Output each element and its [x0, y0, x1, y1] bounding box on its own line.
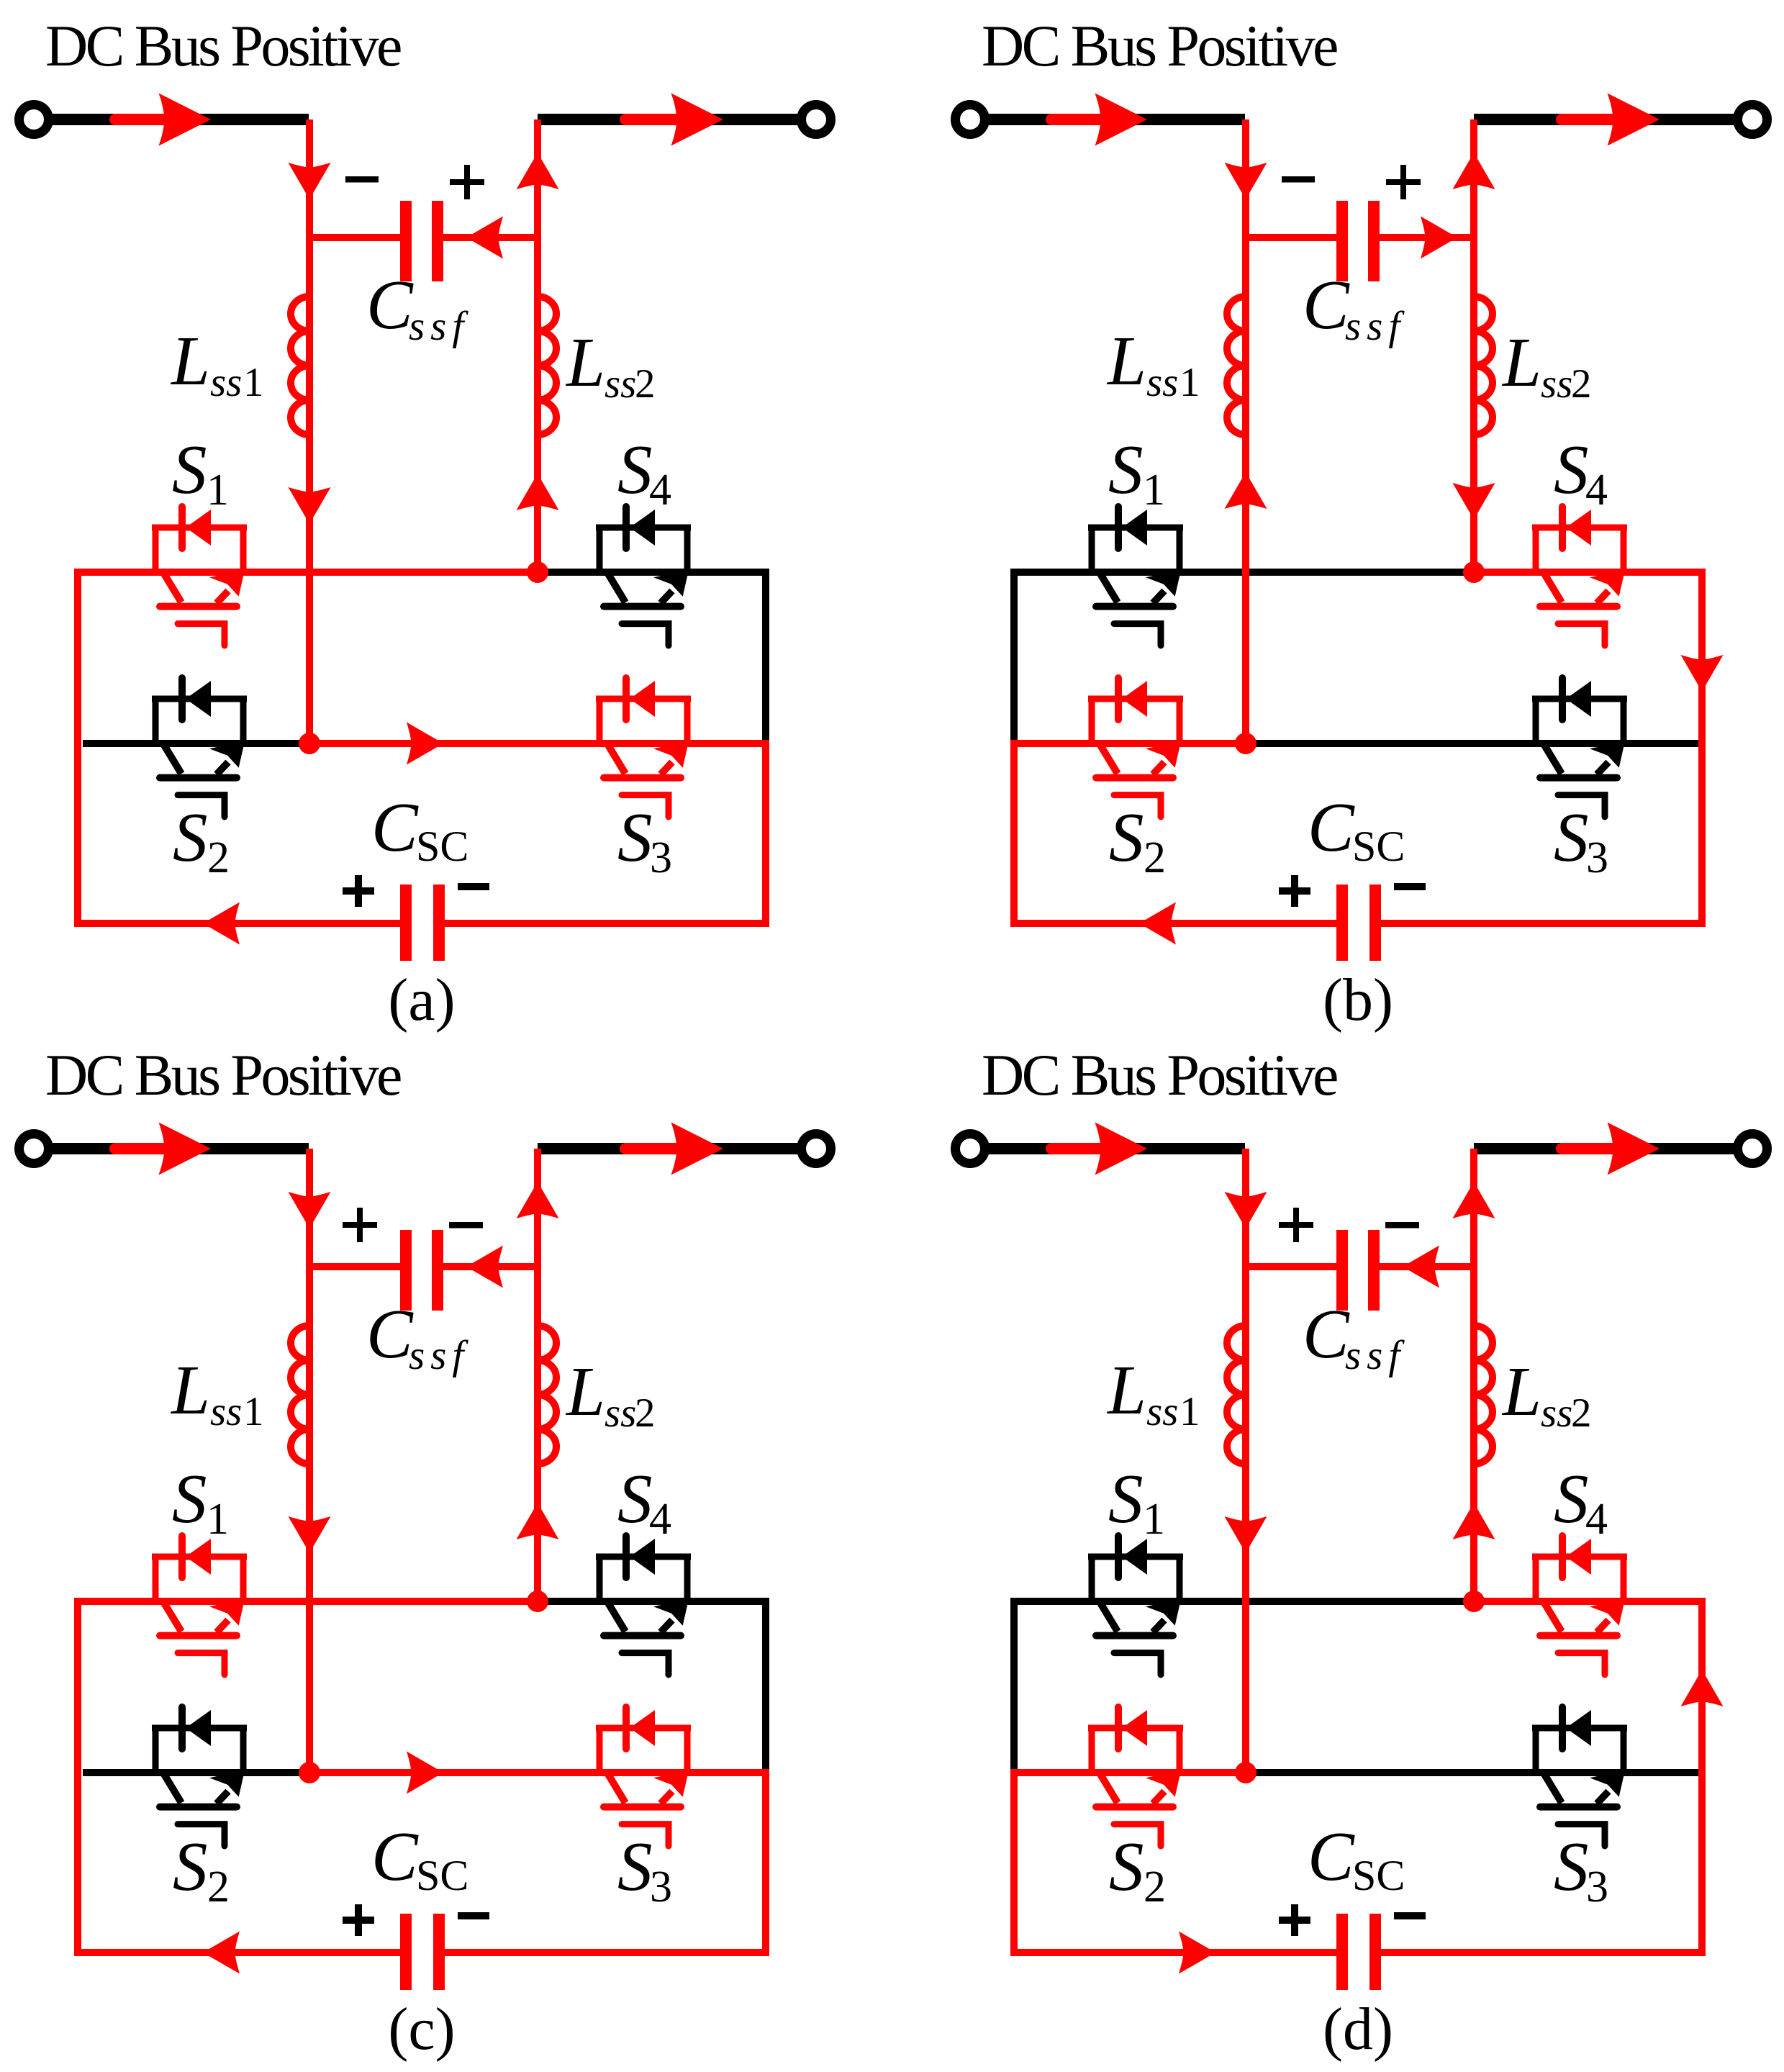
- arrow up on right-mid vertical (top): [1453, 153, 1495, 189]
- labels (component names): [45, 1042, 672, 1936]
- arrow right on Cssf wire: [1421, 217, 1457, 259]
- node rail1/right-mid junction: [1463, 1591, 1485, 1612]
- wire left-mid vertical (bus to rail2 node): [306, 1149, 313, 1773]
- capacitor Cssf plates: [400, 201, 412, 281]
- current arrow on left bus: [1051, 1143, 1102, 1154]
- transistor S1: [152, 1536, 247, 1675]
- terminal (right bus): [802, 105, 831, 135]
- node rail2/left-mid junction: [299, 733, 320, 754]
- capacitor Cssf plates: [1336, 1230, 1348, 1311]
- arrow down on left-mid vertical (top): [289, 163, 331, 199]
- wire right-mid vertical (bus to rail1 node): [534, 1149, 541, 1601]
- transistor S2: [152, 678, 247, 817]
- arrow left on Cssf wire: [466, 217, 503, 259]
- capacitor CSC plates: [1336, 885, 1348, 961]
- wire left-mid vertical (bus to rail2 node): [1242, 119, 1249, 743]
- arrow up on right-mid vertical (top): [1453, 1182, 1495, 1218]
- node rail2/left-mid junction: [1235, 1762, 1257, 1783]
- wire rail1 right + full right outer (red, through S4): [1474, 572, 1702, 923]
- transistor S4: [1532, 1536, 1627, 1675]
- transistor S1: [1088, 507, 1183, 646]
- arrow down on left-mid vertical (top): [289, 1192, 331, 1229]
- current arrow on right bus: [625, 1143, 676, 1154]
- terminal (right bus): [1738, 1134, 1767, 1164]
- current arrow on right bus: [1562, 114, 1613, 125]
- arrow down on left-mid vertical (lower): [289, 487, 331, 524]
- capacitor Cssf plates: [1336, 201, 1348, 281]
- wire DC bus positive (right segment): [1474, 1143, 1737, 1154]
- node rail1/right-mid junction: [527, 1591, 548, 1612]
- wire rail2 right (black, through S3): [1246, 740, 1698, 747]
- arrow down on left-mid vertical (top): [1225, 1192, 1267, 1229]
- wire rail2 left (black, through S2): [83, 740, 309, 747]
- transistor S2: [1088, 1707, 1183, 1846]
- svg-text:(a): (a): [388, 967, 455, 1033]
- transistor S3: [596, 1707, 691, 1846]
- svg-text:(b): (b): [1323, 967, 1393, 1033]
- wire rail2 left + left outer lower (red, through S2): [1014, 1773, 1246, 1953]
- wire right-mid vertical (bus to rail1 node): [534, 119, 541, 572]
- arrow down on left-mid vertical (lower): [289, 1516, 331, 1553]
- inductor Lss1: [1227, 297, 1246, 435]
- arrow up on right-mid vertical (lower): [517, 1503, 559, 1539]
- wire rail1 left + left outer (red, through S1): [78, 572, 538, 923]
- transistor S4: [596, 1536, 691, 1675]
- polarity plus (Cssf left): [1279, 1208, 1313, 1242]
- inductor Lss2: [538, 297, 556, 435]
- terminal (left bus): [19, 105, 49, 135]
- current arrow on right bus: [625, 114, 676, 125]
- wire bottom loop with capacitor gap: [1010, 920, 1706, 927]
- current arrow on left bus: [115, 1143, 166, 1154]
- wire DC bus positive (right segment): [538, 1143, 800, 1154]
- inductor Lss2: [1474, 297, 1493, 435]
- current arrow on left bus: [1051, 114, 1102, 125]
- current arrow on left bus: [115, 114, 166, 125]
- wire rail1 right + right outer upper (black, through S4): [538, 1601, 766, 1773]
- arrow up on right-mid vertical (top): [517, 153, 559, 189]
- terminal (right bus): [802, 1134, 831, 1164]
- terminal (left bus): [19, 1134, 49, 1164]
- wire rail1 left + left outer upper (black, through S1): [1014, 572, 1474, 743]
- polarity minus (Cssf right): [449, 1222, 483, 1229]
- arrow up on right outer wire: [1681, 1670, 1724, 1706]
- arrow down on left-mid vertical (lower): [1225, 1516, 1267, 1553]
- wire rail2 right + right outer lower (red, through S3): [309, 1773, 766, 1953]
- arrow up on right-mid vertical (lower): [517, 474, 559, 510]
- wire capacitor Cssf branch: [1246, 1263, 1474, 1270]
- wire rail2 right (black, through S3): [1246, 1769, 1698, 1776]
- transistor S3: [1532, 1707, 1627, 1846]
- polarity plus (Cssf right): [450, 165, 484, 199]
- inductor Lss1: [291, 297, 309, 435]
- wire bottom loop with capacitor gap: [74, 1949, 769, 1956]
- inductor Lss2: [1474, 1326, 1493, 1464]
- node rail1/right-mid junction: [1463, 561, 1485, 583]
- polarity minus (Cssf left): [345, 176, 379, 183]
- arrow down on left-mid vertical (top): [1225, 163, 1267, 199]
- wire rail1 left + left outer (red, through S1): [78, 1601, 538, 1953]
- arrow up on left-mid vertical (lower): [1225, 472, 1267, 509]
- node rail2/left-mid junction: [299, 1762, 320, 1783]
- arrow right on rail2: [407, 723, 443, 765]
- wire DC bus positive (right segment): [538, 114, 800, 125]
- wire left-mid vertical (bus to rail2 node): [1242, 1149, 1249, 1773]
- transistor S2: [152, 1707, 247, 1846]
- arrow up on right-mid vertical (lower): [1453, 1503, 1495, 1539]
- capacitor CSC plates: [400, 885, 412, 961]
- svg-text:(c): (c): [388, 1996, 455, 2063]
- wire capacitor Cssf branch: [1246, 234, 1474, 241]
- arrow right on rail2: [407, 1752, 443, 1794]
- terminal (right bus): [1738, 105, 1767, 135]
- inductor Lss1: [1227, 1326, 1246, 1464]
- capacitor CSC plates: [1336, 1914, 1348, 1990]
- wire rail2 left + left outer lower (red, through S2): [1014, 743, 1246, 923]
- wire right-mid vertical (bus to rail1 node): [1470, 119, 1477, 572]
- polarity minus (Cssf right): [1385, 1222, 1419, 1229]
- arrow right on bottom wire: [1179, 1932, 1215, 1974]
- wire rail2 left (black, through S2): [83, 1769, 309, 1776]
- terminal (left bus): [956, 1134, 985, 1164]
- transistor S3: [596, 678, 691, 817]
- transistor S1: [152, 507, 247, 646]
- capacitor CSC plates: [400, 1914, 412, 1990]
- inductor Lss2: [538, 1326, 556, 1464]
- node rail1/right-mid junction: [527, 561, 548, 583]
- arrow left on Cssf wire: [466, 1246, 503, 1288]
- wire DC bus positive (left segment): [987, 1143, 1245, 1154]
- wire bottom loop with capacitor gap: [74, 920, 769, 927]
- polarity minus (Cssf left): [1282, 176, 1315, 183]
- arrow down on right outer wire: [1681, 655, 1724, 692]
- arrow down on right-mid vertical (lower): [1453, 483, 1495, 520]
- polarity plus (Cssf right): [1386, 165, 1421, 199]
- wire DC bus positive (left segment): [50, 1143, 309, 1154]
- wire bottom loop with capacitor gap: [1010, 1949, 1706, 1956]
- wire rail1 right + right outer upper (black, through S4): [538, 572, 766, 743]
- node rail2/left-mid junction: [1235, 733, 1257, 754]
- arrow left on Cssf wire: [1403, 1246, 1439, 1288]
- arrow left on bottom wire: [203, 902, 240, 945]
- svg-text:(d): (d): [1323, 1996, 1393, 2063]
- capacitor Cssf plates: [400, 1230, 412, 1311]
- wire rail2 right + right outer lower (red, through S3): [309, 743, 766, 923]
- wire left-mid vertical (bus to rail2 node): [306, 119, 313, 743]
- wire capacitor Cssf branch: [309, 1263, 538, 1270]
- wire right-mid vertical (bus to rail1 node): [1470, 1149, 1477, 1601]
- wire DC bus positive (left segment): [987, 114, 1245, 125]
- arrow left on bottom wire: [1139, 902, 1176, 945]
- labels (component names): [45, 13, 672, 907]
- labels (component names): [982, 13, 1608, 907]
- labels (component names): [982, 1042, 1608, 1936]
- inductor Lss1: [291, 1326, 309, 1464]
- transistor S3: [1532, 678, 1627, 817]
- transistor S1: [1088, 1536, 1183, 1675]
- current arrow on right bus: [1562, 1143, 1613, 1154]
- arrow up on right-mid vertical (top): [517, 1182, 559, 1218]
- transistor S2: [1088, 678, 1183, 817]
- wire rail1 right + full right outer (red, through S4): [1474, 1601, 1702, 1953]
- arrow left on bottom wire: [203, 1932, 240, 1974]
- wire rail1 left + left outer upper (black, through S1): [1014, 1601, 1474, 1773]
- wire capacitor Cssf branch: [309, 234, 538, 241]
- transistor S4: [1532, 507, 1627, 646]
- terminal (left bus): [956, 105, 985, 135]
- wire DC bus positive (left segment): [50, 114, 309, 125]
- transistor S4: [596, 507, 691, 646]
- wire DC bus positive (right segment): [1474, 114, 1737, 125]
- polarity plus (Cssf left): [343, 1208, 377, 1242]
